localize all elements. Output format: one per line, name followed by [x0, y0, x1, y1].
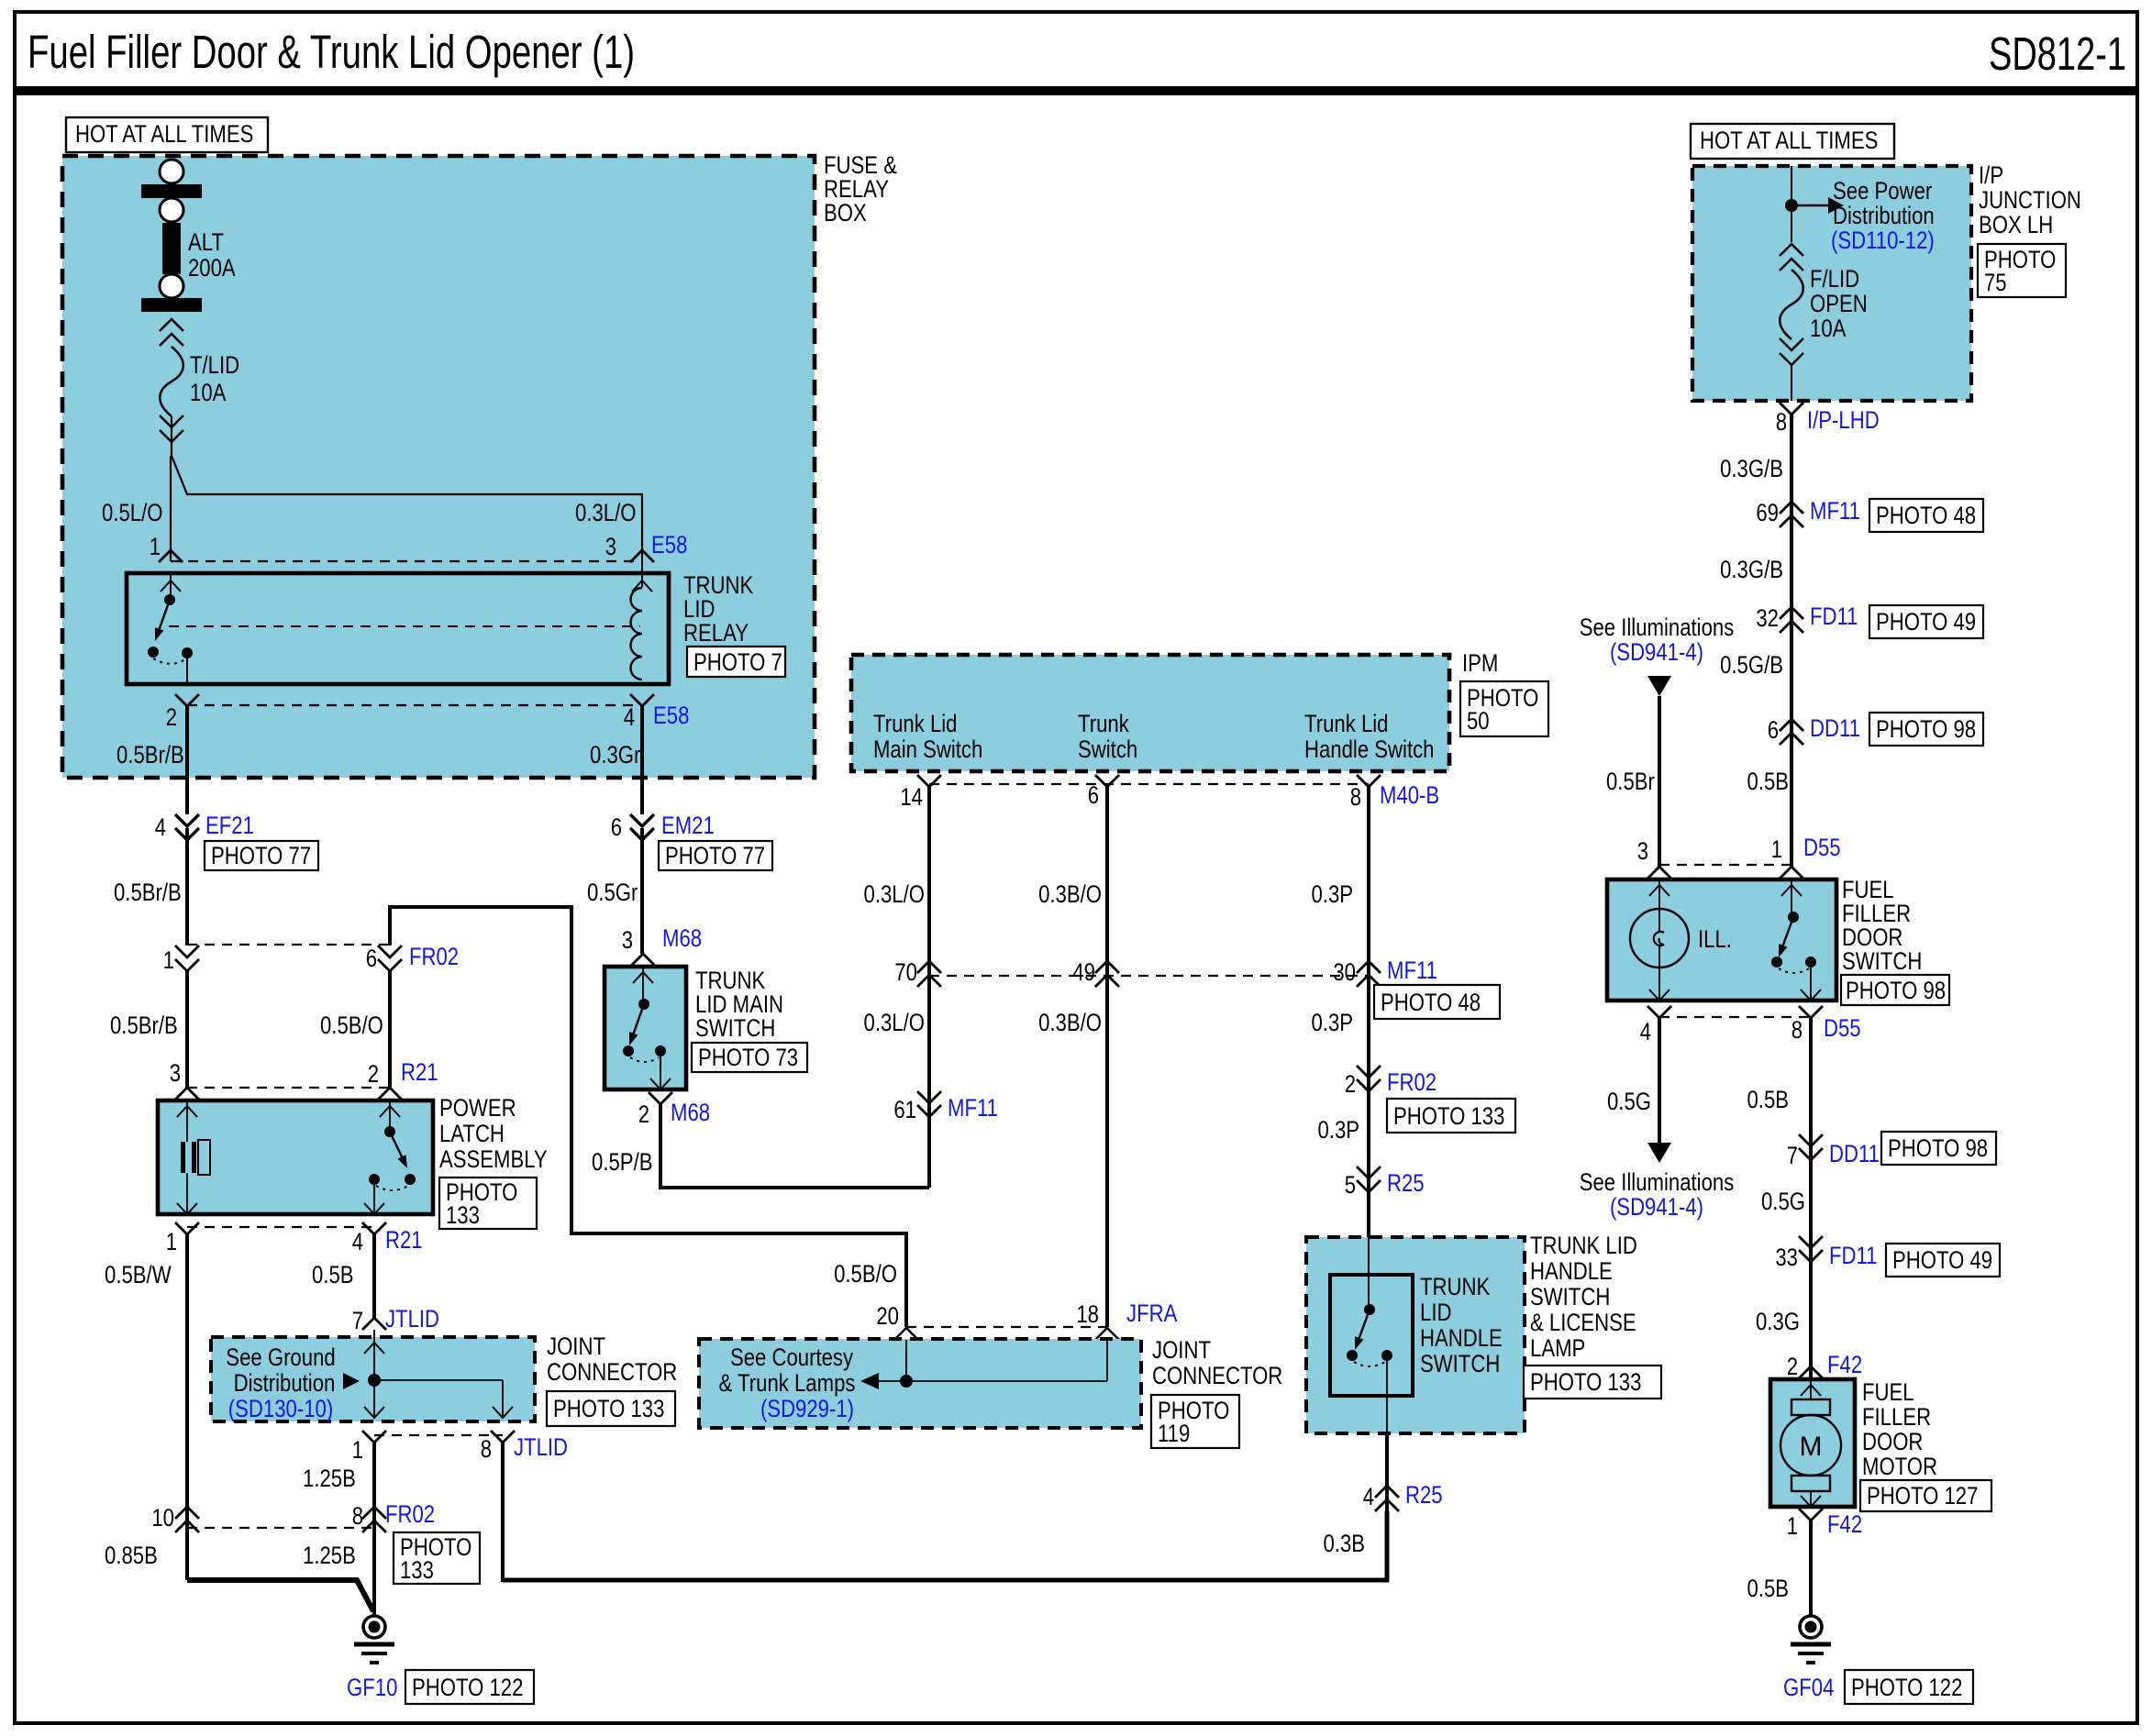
HOT AT ALL TIMES label left: [66, 117, 268, 152]
svg-text:0.3P: 0.3P: [1312, 1009, 1354, 1036]
FR02 PHOTO 133 label box: [394, 1532, 480, 1584]
svg-text:2: 2: [1345, 1070, 1356, 1098]
svg-text:BOX LH: BOX LH: [1979, 211, 2053, 238]
svg-text:4: 4: [352, 1228, 363, 1255]
svg-text:F/LID: F/LID: [1810, 265, 1859, 293]
svg-text:8: 8: [1791, 1016, 1803, 1044]
svg-text:DD11: DD11: [1829, 1140, 1880, 1167]
svg-text:(SD929-1): (SD929-1): [760, 1395, 854, 1422]
svg-text:2: 2: [368, 1060, 379, 1088]
svg-text:3: 3: [1637, 837, 1648, 865]
IPM module box: [851, 655, 1449, 771]
joint connector PHOTO 119 label box: [1151, 1395, 1239, 1448]
svg-text:0.5Br/B: 0.5Br/B: [116, 741, 184, 768]
connector FD11 pin 33: [1799, 1236, 1823, 1248]
svg-text:61: 61: [893, 1096, 916, 1123]
svg-text:HOT AT ALL TIMES: HOT AT ALL TIMES: [75, 120, 253, 148]
fuse F/LID OPEN 10A: [1780, 244, 1803, 401]
svg-text:DD11: DD11: [1810, 714, 1860, 742]
wire from fuse to branch node: [171, 416, 172, 456]
svg-text:TRUNK: TRUNK: [1420, 1273, 1490, 1300]
wire FR02-6 to R21-2: [388, 971, 392, 1088]
FR02 PHOTO 133 label box: [1387, 1099, 1515, 1133]
connector EM21 pin 6: [630, 814, 654, 954]
title separator thick line: [15, 86, 2137, 95]
ground bus right segment to R25: [503, 1511, 1387, 1580]
svg-text:6: 6: [611, 813, 622, 841]
svg-text:Main Switch: Main Switch: [873, 735, 982, 763]
svg-text:R21: R21: [385, 1226, 423, 1254]
connector E58 pins 1 and 3: [159, 550, 654, 562]
svg-text:FD11: FD11: [1810, 603, 1858, 630]
svg-text:JOINT: JOINT: [1152, 1336, 1211, 1364]
svg-text:0.3G/B: 0.3G/B: [1720, 556, 1783, 583]
svg-text:32: 32: [1756, 604, 1779, 632]
svg-text:0.3P: 0.3P: [1312, 880, 1354, 908]
svg-text:FR02: FR02: [385, 1500, 435, 1528]
svg-text:JTLID: JTLID: [385, 1305, 439, 1332]
connector row pins 1 and 4 R21: [175, 1222, 386, 1234]
svg-text:PHOTO 122: PHOTO 122: [1851, 1674, 1962, 1701]
relay coil: [631, 550, 653, 680]
svg-text:20: 20: [876, 1302, 899, 1330]
GF04 PHOTO 122 label box: [1845, 1670, 1973, 1704]
fuse & relay box enclosure: [62, 156, 815, 778]
svg-text:50: 50: [1467, 707, 1490, 735]
svg-text:3: 3: [622, 926, 633, 954]
svg-text:(SD941-4): (SD941-4): [1610, 638, 1703, 666]
svg-text:0.3L/O: 0.3L/O: [575, 499, 637, 526]
svg-text:I/P-LHD: I/P-LHD: [1807, 406, 1880, 434]
svg-text:D55: D55: [1824, 1014, 1861, 1042]
wire illumination to D55-3: [1658, 696, 1661, 867]
svg-text:M68: M68: [671, 1099, 710, 1126]
svg-text:CONNECTOR: CONNECTOR: [1152, 1362, 1282, 1389]
wire JTLID-1 down to FR02-8: [372, 1443, 376, 1617]
connector F42 pin 2: [1799, 1366, 1823, 1378]
connector E58 pins 2 and 4: [175, 694, 654, 706]
svg-text:0.5L/O: 0.5L/O: [102, 499, 163, 526]
svg-text:0.5Br: 0.5Br: [1606, 768, 1655, 795]
svg-text:RELAY: RELAY: [683, 619, 749, 647]
svg-text:2: 2: [166, 703, 177, 731]
EM21 PHOTO 77 label box: [659, 841, 772, 870]
svg-text:See Courtesy: See Courtesy: [730, 1343, 854, 1371]
svg-text:FILLER: FILLER: [1862, 1403, 1931, 1431]
svg-text:See Illuminations: See Illuminations: [1580, 614, 1735, 641]
handle switch PHOTO 133 label box: [1524, 1366, 1661, 1399]
ground bus left segment: [187, 1580, 373, 1611]
svg-text:4: 4: [155, 813, 166, 841]
fuel filler door switch contact: [1771, 879, 1821, 1001]
connector F42 pin 1: [1799, 1509, 1823, 1520]
FD11 PHOTO 49 label box: [1869, 605, 1983, 638]
svg-text:PHOTO 133: PHOTO 133: [1530, 1368, 1641, 1396]
motor M symbol: [1780, 1379, 1841, 1507]
connector D55 pins 3 and 1: [1647, 865, 1803, 879]
joint connector courtesy internal wires: [879, 1340, 1107, 1388]
wire EF21 to R21-3 0.5Br/B: [185, 971, 189, 1088]
svg-text:49: 49: [1072, 958, 1095, 986]
svg-text:PHOTO 98: PHOTO 98: [1888, 1134, 1988, 1162]
svg-text:0.5B: 0.5B: [312, 1261, 354, 1288]
svg-text:6: 6: [1768, 716, 1779, 744]
relay K1 TRUNK LID RELAY box: [127, 573, 669, 684]
svg-text:See Ground: See Ground: [226, 1343, 335, 1371]
MF11 PHOTO 48 label box: [1869, 499, 1983, 532]
svg-text:F42: F42: [1827, 1351, 1862, 1378]
svg-text:1: 1: [166, 1228, 177, 1255]
wire junction box to fuel filler door switch: [1790, 415, 1793, 867]
joint connector courtesy lamps box: [699, 1339, 1141, 1428]
svg-text:PHOTO 127: PHOTO 127: [1867, 1482, 1978, 1509]
svg-text:LAMP: LAMP: [1530, 1334, 1585, 1362]
branch node wire to relay coil: [172, 456, 642, 550]
I/P junction box LH enclosure: [1692, 166, 1971, 401]
svg-text:FUEL: FUEL: [1862, 1378, 1914, 1406]
trunk lid main switch box: [605, 967, 686, 1089]
power latch PHOTO 133 label box: [439, 1178, 537, 1229]
connector DD11 pin 6: [1780, 719, 1803, 731]
svg-text:FD11: FD11: [1829, 1242, 1878, 1269]
svg-text:OPEN: OPEN: [1810, 290, 1868, 317]
svg-text:See Illuminations: See Illuminations: [1580, 1168, 1735, 1196]
svg-text:JOINT: JOINT: [547, 1332, 605, 1360]
svg-text:4: 4: [1640, 1018, 1651, 1045]
wire D55-8 down to motor: [1809, 1018, 1813, 1379]
connector M40-B pins 14 6 8: [917, 775, 1381, 787]
connector row pins 3 and 2 R21: [175, 1088, 402, 1100]
svg-text:JFRA: JFRA: [1126, 1299, 1177, 1327]
svg-text:JTLID: JTLID: [514, 1433, 568, 1461]
connector M68 pin 2: [649, 1092, 672, 1104]
connector I/P-LHD pin 8: [1780, 403, 1803, 415]
wire IPM 8 down: [1367, 787, 1370, 1237]
svg-text:0.5G: 0.5G: [1607, 1088, 1651, 1115]
svg-text:Handle Switch: Handle Switch: [1304, 735, 1435, 763]
DD11 PHOTO 98 label box: [1881, 1132, 1996, 1165]
svg-text:D55: D55: [1803, 834, 1841, 861]
svg-text:CONNECTOR: CONNECTOR: [547, 1358, 677, 1386]
svg-text:JUNCTION: JUNCTION: [1979, 186, 2081, 214]
svg-text:SWITCH: SWITCH: [1530, 1283, 1610, 1310]
wire power latch pin1 down: [185, 1234, 189, 1580]
wire FR02-6 elbow to joint connector 20: [390, 907, 906, 1327]
svg-text:R25: R25: [1387, 1169, 1425, 1197]
svg-text:0.5Gr: 0.5Gr: [587, 879, 638, 906]
fuel filler door switch PHOTO 98 label box: [1841, 975, 1949, 1005]
svg-text:0.5B: 0.5B: [1747, 1086, 1790, 1113]
svg-text:Switch: Switch: [1078, 735, 1137, 763]
svg-text:7: 7: [352, 1307, 363, 1334]
svg-text:FR02: FR02: [409, 943, 459, 970]
svg-text:(SD130-10): (SD130-10): [228, 1395, 333, 1422]
svg-text:8: 8: [352, 1502, 363, 1530]
HOT AT ALL TIMES label right: [1691, 124, 1894, 159]
svg-text:0.3P: 0.3P: [1318, 1116, 1360, 1144]
svg-text:5: 5: [1345, 1171, 1356, 1199]
svg-text:EM21: EM21: [661, 812, 715, 839]
svg-text:1: 1: [163, 946, 174, 974]
svg-text:0.5B: 0.5B: [1747, 768, 1790, 795]
svg-text:PHOTO 73: PHOTO 73: [698, 1044, 798, 1071]
svg-text:0.5G/B: 0.5G/B: [1720, 651, 1783, 679]
svg-text:LATCH: LATCH: [439, 1120, 505, 1147]
relay internal dashed link: [169, 625, 640, 627]
svg-text:POWER: POWER: [439, 1094, 516, 1122]
see illuminations incoming arrow: [1647, 676, 1671, 696]
svg-text:0.3G/B: 0.3G/B: [1720, 455, 1783, 482]
IPM PHOTO 50 label box: [1460, 681, 1548, 736]
trunk lid handle switch enclosure box: [1306, 1237, 1525, 1433]
svg-text:M40-B: M40-B: [1380, 781, 1439, 809]
svg-text:4: 4: [1363, 1483, 1374, 1510]
svg-text:PHOTO 122: PHOTO 122: [412, 1674, 523, 1701]
see ground distribution pointer: [343, 1373, 360, 1389]
svg-text:PHOTO 49: PHOTO 49: [1892, 1246, 1992, 1274]
svg-text:4: 4: [624, 703, 635, 731]
svg-text:2: 2: [638, 1100, 649, 1128]
svg-text:(SD941-4): (SD941-4): [1610, 1193, 1703, 1221]
svg-text:0.5B: 0.5B: [1747, 1575, 1790, 1602]
svg-text:2: 2: [1787, 1353, 1798, 1380]
svg-text:PHOTO 48: PHOTO 48: [1381, 989, 1481, 1016]
connector MF11 pin 61: [917, 1091, 941, 1103]
svg-text:MF11: MF11: [948, 1094, 998, 1122]
connector row pins 1 and 6 FR02: [175, 945, 402, 971]
svg-text:6: 6: [366, 945, 377, 972]
motor PHOTO 127 label box: [1860, 1480, 1991, 1511]
svg-text:MF11: MF11: [1810, 497, 1860, 525]
see illuminations outgoing arrow: [1647, 1143, 1671, 1163]
connector R25 pin 5: [1357, 1167, 1381, 1178]
svg-text:PHOTO 98: PHOTO 98: [1846, 977, 1946, 1004]
svg-text:I/P: I/P: [1979, 161, 2003, 189]
connector R25 pin 4: [1375, 1486, 1399, 1498]
svg-text:1: 1: [1787, 1512, 1798, 1540]
svg-text:ALT: ALT: [188, 228, 224, 256]
svg-text:PHOTO 48: PHOTO 48: [1876, 502, 1976, 529]
power latch assembly box: [158, 1100, 433, 1214]
svg-text:E58: E58: [653, 702, 689, 729]
svg-text:GF10: GF10: [347, 1674, 397, 1701]
wire handle switch to ground bus 0.3B: [1385, 1433, 1389, 1580]
relay PHOTO 7 label box: [687, 647, 785, 677]
svg-text:TRUNK LID: TRUNK LID: [1530, 1232, 1637, 1259]
svg-text:1: 1: [150, 533, 161, 560]
svg-text:T/LID: T/LID: [190, 351, 239, 379]
wire JTLID-8 down to ground bus: [501, 1443, 505, 1582]
svg-text:10A: 10A: [190, 379, 226, 406]
svg-text:14: 14: [900, 783, 923, 811]
svg-text:7: 7: [1787, 1142, 1798, 1169]
svg-text:HANDLE: HANDLE: [1530, 1257, 1613, 1285]
svg-text:10: 10: [151, 1504, 174, 1531]
svg-text:8: 8: [1776, 408, 1787, 436]
svg-text:LID: LID: [1420, 1299, 1452, 1326]
svg-text:133: 133: [446, 1201, 480, 1229]
svg-text:SD812-1: SD812-1: [1989, 28, 2126, 80]
svg-text:SWITCH: SWITCH: [1420, 1350, 1500, 1377]
svg-text:BOX: BOX: [824, 199, 867, 227]
svg-text:MF11: MF11: [1387, 956, 1437, 984]
latch mechanism symbol: [177, 1100, 210, 1214]
connector FD11 pin 32: [1780, 607, 1803, 619]
svg-text:PHOTO 133: PHOTO 133: [1393, 1102, 1504, 1130]
svg-text:Trunk Lid: Trunk Lid: [873, 710, 958, 737]
wire motor to ground GF04: [1809, 1520, 1813, 1616]
svg-text:75: 75: [1984, 269, 2007, 296]
svg-text:See Power: See Power: [1833, 177, 1932, 205]
svg-text:70: 70: [894, 958, 917, 986]
svg-text:PHOTO 7: PHOTO 7: [693, 648, 782, 676]
trunk lid handle switch inner box: [1330, 1275, 1413, 1396]
svg-text:0.3Gr: 0.3Gr: [590, 741, 640, 768]
svg-text:Distribution: Distribution: [1833, 202, 1935, 229]
svg-text:PHOTO 77: PHOTO 77: [665, 842, 765, 869]
connector DD11 pin 7: [1799, 1134, 1823, 1146]
connector D55 pins 4 and 8: [1647, 1006, 1823, 1018]
svg-text:Fuel Filler Door & Trunk Lid O: Fuel Filler Door & Trunk Lid Opener (1): [28, 26, 635, 78]
svg-text:HANDLE: HANDLE: [1420, 1324, 1503, 1352]
fuel filler door switch box: [1607, 879, 1836, 1001]
svg-text:0.5G: 0.5G: [1761, 1188, 1805, 1215]
ground GF10 symbol: [354, 1616, 394, 1663]
svg-text:0.3B/O: 0.3B/O: [1038, 880, 1102, 908]
svg-text:0.3B/O: 0.3B/O: [1038, 1009, 1102, 1036]
connector FR02 pin 2: [1357, 1066, 1381, 1078]
svg-text:Distribution: Distribution: [234, 1369, 336, 1397]
svg-text:EF21: EF21: [205, 812, 254, 839]
svg-text:119: 119: [1158, 1420, 1190, 1447]
svg-text:PHOTO 98: PHOTO 98: [1876, 715, 1976, 743]
svg-text:SWITCH: SWITCH: [1842, 947, 1922, 975]
svg-text:30: 30: [1333, 958, 1356, 986]
latch switch contact: [364, 1100, 416, 1214]
EF21 PHOTO 77 label box: [205, 841, 318, 870]
DD11 PHOTO 98 label box: [1869, 713, 1983, 746]
svg-text:8: 8: [1350, 783, 1361, 811]
svg-text:0.3L/O: 0.3L/O: [864, 880, 926, 908]
svg-text:0.5B/W: 0.5B/W: [105, 1261, 172, 1288]
svg-text:DOOR: DOOR: [1862, 1428, 1923, 1455]
svg-text:ILL.: ILL.: [1698, 925, 1732, 953]
wire IPM 6 down: [1105, 787, 1109, 1327]
joint connector box ground distribution: [211, 1337, 535, 1421]
see courtesy pointer: [860, 1373, 879, 1389]
joint connector internal wires: [364, 1330, 513, 1418]
svg-text:E58: E58: [651, 531, 687, 558]
svg-text:0.5Br/B: 0.5Br/B: [114, 879, 182, 906]
svg-text:& LICENSE: & LICENSE: [1530, 1309, 1636, 1336]
svg-text:0.5P/B: 0.5P/B: [592, 1148, 653, 1176]
MF11 PHOTO 48 label box: [1374, 985, 1500, 1019]
wire relay pin 4 to EM21: [640, 706, 644, 814]
svg-text:10A: 10A: [1810, 315, 1846, 342]
trunk lid main switch contact: [623, 967, 671, 1089]
svg-text:R21: R21: [401, 1058, 438, 1086]
illumination bulb: [1630, 879, 1689, 1001]
svg-text:0.5B/O: 0.5B/O: [320, 1012, 383, 1039]
ground GF04 symbol: [1791, 1616, 1831, 1663]
svg-text:MOTOR: MOTOR: [1862, 1453, 1937, 1480]
svg-text:PHOTO 133: PHOTO 133: [553, 1395, 664, 1422]
svg-text:0.5B/O: 0.5B/O: [834, 1260, 897, 1288]
svg-text:HOT AT ALL TIMES: HOT AT ALL TIMES: [1700, 127, 1878, 154]
svg-text:IPM: IPM: [1462, 649, 1498, 677]
svg-text:F42: F42: [1827, 1510, 1862, 1538]
wire branch to relay pin 1: [170, 456, 172, 561]
fusible link ALT 200A: [141, 160, 202, 312]
svg-text:0.3B: 0.3B: [1324, 1530, 1366, 1557]
svg-text:& Trunk Lamps: & Trunk Lamps: [719, 1369, 856, 1397]
svg-text:M: M: [1800, 1432, 1823, 1462]
svg-text:18: 18: [1076, 1300, 1099, 1328]
svg-text:133: 133: [400, 1556, 434, 1584]
junction box internal wire and node: [1785, 166, 1829, 242]
svg-text:0.3G: 0.3G: [1756, 1308, 1800, 1335]
wire D55-4 to see illuminations: [1658, 1018, 1661, 1143]
wire relay pin 2 to EF21: [185, 706, 189, 814]
fuse T/LID 10A: [160, 319, 183, 442]
svg-text:6: 6: [1088, 781, 1099, 809]
svg-text:33: 33: [1775, 1244, 1798, 1271]
joint connector PHOTO 133 label box: [547, 1391, 675, 1426]
svg-text:GF04: GF04: [1783, 1674, 1834, 1701]
svg-text:PHOTO 49: PHOTO 49: [1876, 608, 1976, 636]
svg-text:69: 69: [1756, 499, 1779, 526]
connector M68 pin 3: [631, 954, 655, 966]
svg-text:Trunk Lid: Trunk Lid: [1304, 710, 1389, 737]
svg-text:(SD110-12): (SD110-12): [1831, 227, 1935, 254]
fuel filler door motor box: [1770, 1379, 1855, 1507]
svg-text:0.85B: 0.85B: [105, 1542, 158, 1569]
svg-text:200A: 200A: [188, 254, 236, 282]
connector MF11 pins 70 49 30: [917, 961, 1381, 987]
svg-text:8: 8: [481, 1435, 492, 1463]
svg-text:M68: M68: [662, 924, 702, 952]
svg-text:PHOTO 77: PHOTO 77: [211, 842, 311, 869]
svg-text:3: 3: [605, 533, 616, 560]
connector JFRA pins 20 18: [894, 1327, 1119, 1354]
trunk lid main switch PHOTO 73 label box: [692, 1043, 807, 1072]
svg-text:0.5Br/B: 0.5Br/B: [110, 1012, 178, 1039]
wire IPM 14 down: [927, 787, 931, 1188]
svg-text:SWITCH: SWITCH: [695, 1014, 775, 1042]
svg-text:1.25B: 1.25B: [303, 1542, 356, 1569]
svg-text:1: 1: [352, 1436, 363, 1464]
svg-text:R25: R25: [1405, 1481, 1443, 1509]
FD11 PHOTO 49 label box: [1886, 1244, 2000, 1277]
connector EF21 pin 4: [175, 814, 199, 945]
relay switch contact: [148, 573, 193, 684]
connector row pins 1 and 8 JTLID: [362, 1431, 515, 1443]
svg-text:Trunk: Trunk: [1078, 710, 1129, 737]
svg-text:ASSEMBLY: ASSEMBLY: [439, 1145, 548, 1173]
trunk lid handle switch contact: [1347, 1237, 1392, 1433]
wire power latch pin4 down to JTLID: [372, 1234, 376, 1318]
svg-text:FR02: FR02: [1387, 1068, 1437, 1096]
connector MF11 pin 69: [1780, 502, 1803, 514]
svg-text:1.25B: 1.25B: [303, 1465, 356, 1492]
connector JTLID pin 7: [362, 1318, 386, 1330]
GF10 PHOTO 122 label box: [405, 1670, 534, 1704]
junction box PHOTO 75 label box: [1978, 244, 2066, 297]
connector row pins 10 and 8 FR02: [175, 1507, 386, 1532]
svg-text:0.3L/O: 0.3L/O: [864, 1009, 926, 1036]
wire M68-2 to MF11 junction 0.5P/B: [660, 1104, 929, 1188]
svg-text:1: 1: [1771, 835, 1782, 863]
